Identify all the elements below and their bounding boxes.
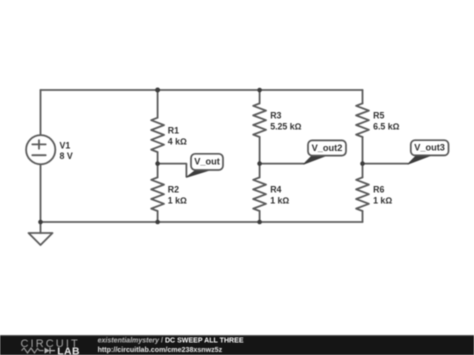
resistor R2 xyxy=(151,177,164,211)
node V_out3 flag xyxy=(408,140,449,164)
label R1 value 4 kΩ xyxy=(168,125,187,146)
label R3 value 5.25 kΩ xyxy=(270,111,301,132)
footer bar xyxy=(0,335,474,355)
wire node V_out tap xyxy=(158,164,187,177)
junction bottom rail / R2 xyxy=(155,220,160,225)
label V1 value 8 V xyxy=(60,141,73,162)
svg-text:6.5 kΩ: 6.5 kΩ xyxy=(373,122,400,132)
svg-text:V_out: V_out xyxy=(194,157,220,167)
wire V1 top lead xyxy=(40,90,42,135)
wire R5 to R6 xyxy=(362,137,364,177)
svg-text:R6: R6 xyxy=(373,185,384,195)
label R2 value 1 kΩ xyxy=(168,185,187,206)
wire bottom rail from ground to R6 branch xyxy=(41,221,363,223)
footer url line xyxy=(98,346,223,354)
label R5 value 6.5 kΩ xyxy=(373,111,400,132)
svg-text:existentialmystery / DC SWEEP: existentialmystery / DC SWEEP ALL THREE xyxy=(98,337,244,344)
node V_out2 flag xyxy=(304,140,346,164)
svg-text:R5: R5 xyxy=(373,111,384,121)
label R4 value 1 kΩ xyxy=(270,185,289,206)
wire branch2 top lead xyxy=(157,90,159,118)
svg-text:http://circuitlab.com/cme238xs: http://circuitlab.com/cme238xsnwz5z xyxy=(98,346,223,354)
svg-text:5.25 kΩ: 5.25 kΩ xyxy=(270,122,301,132)
wire V1 bottom lead xyxy=(40,164,42,222)
svg-text:V_out3: V_out3 xyxy=(414,143,445,153)
svg-text:R4: R4 xyxy=(270,185,281,195)
resistor R3 xyxy=(253,103,266,137)
CircuitLab logo wordmark LAB xyxy=(57,346,80,355)
svg-text:R1: R1 xyxy=(168,125,179,135)
footer title line xyxy=(98,337,244,344)
svg-text:1 kΩ: 1 kΩ xyxy=(168,196,187,206)
wire R6 bottom lead xyxy=(362,211,364,222)
svg-text:V_out2: V_out2 xyxy=(312,143,343,153)
resistor R6 xyxy=(356,177,369,211)
svg-text:LAB: LAB xyxy=(57,346,80,355)
ground xyxy=(29,222,53,245)
wire node V_out2 tap xyxy=(260,163,304,165)
svg-text:8 V: 8 V xyxy=(60,151,73,161)
junction R1-R2 node xyxy=(155,161,160,166)
wire R3 to R4 xyxy=(259,137,261,177)
wire branch4 top lead xyxy=(362,90,364,103)
node V_out flag xyxy=(186,154,223,178)
svg-text:R3: R3 xyxy=(270,111,281,121)
junction top rail / R1 xyxy=(155,88,160,93)
resistor R5 xyxy=(356,103,369,137)
junction bottom rail / ground xyxy=(38,220,43,225)
resistor R1 xyxy=(151,118,164,152)
svg-text:V1: V1 xyxy=(60,141,71,151)
CircuitLab logo diode xyxy=(45,348,56,354)
voltage source V1 xyxy=(26,135,55,164)
svg-text:R2: R2 xyxy=(168,185,179,195)
CircuitLab logo wordmark CIRCUIT xyxy=(21,338,80,350)
wire R2 bottom lead xyxy=(157,211,159,222)
wire R4 bottom lead xyxy=(259,211,261,222)
wire node V_out3 tap xyxy=(363,163,408,165)
wire R1 to R2 xyxy=(157,152,159,177)
wire top rail from V1 to R5 branch xyxy=(41,89,363,91)
svg-text:1 kΩ: 1 kΩ xyxy=(373,196,392,206)
label R6 value 1 kΩ xyxy=(373,185,392,206)
svg-text:1 kΩ: 1 kΩ xyxy=(270,196,289,206)
junction bottom rail / R4 xyxy=(257,220,262,225)
CircuitLab logo resistor zigzag xyxy=(22,348,44,353)
junction R3-R4 node xyxy=(257,161,262,166)
resistor R4 xyxy=(253,177,266,211)
junction R5-R6 node xyxy=(360,161,365,166)
junction top rail / R3 xyxy=(257,88,262,93)
wire branch3 top lead xyxy=(259,90,261,103)
svg-text:4 kΩ: 4 kΩ xyxy=(168,137,187,147)
